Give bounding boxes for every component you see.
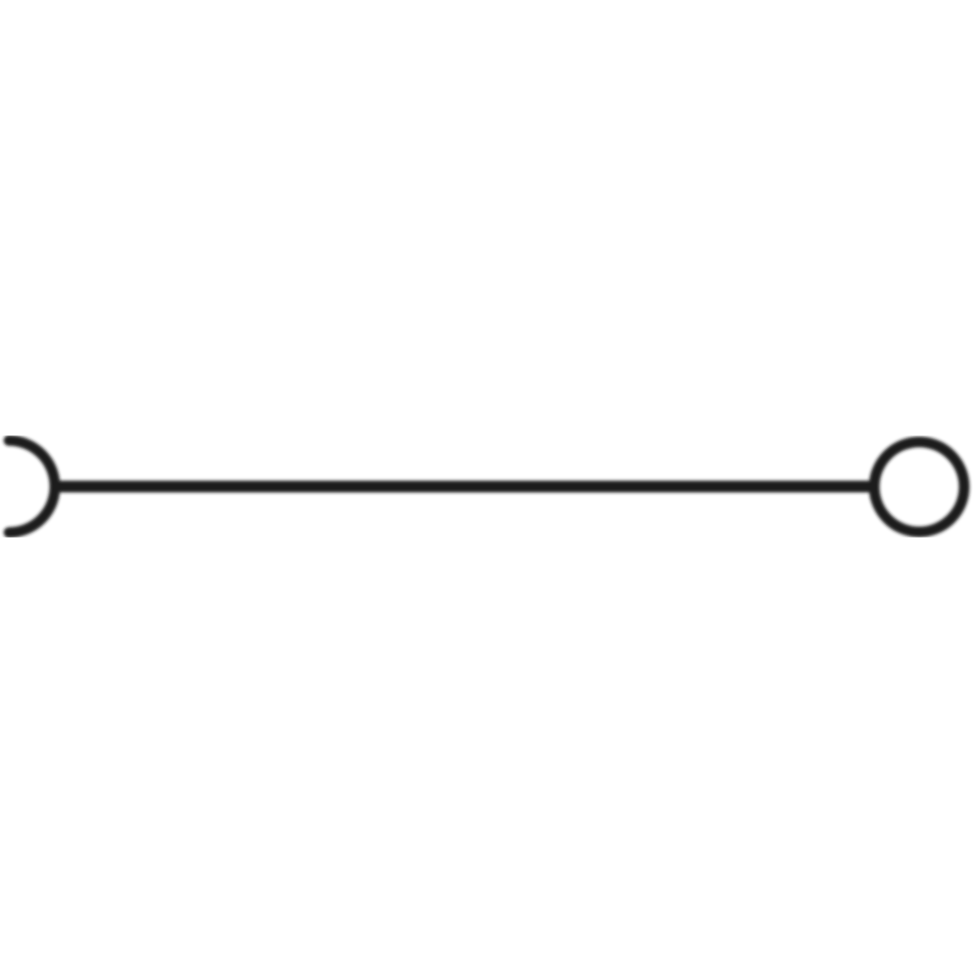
connector arc J1 (left, open to the left) — [9, 441, 55, 533]
terminal circle (right, open pin) — [874, 442, 964, 532]
wire — [53, 481, 873, 493]
